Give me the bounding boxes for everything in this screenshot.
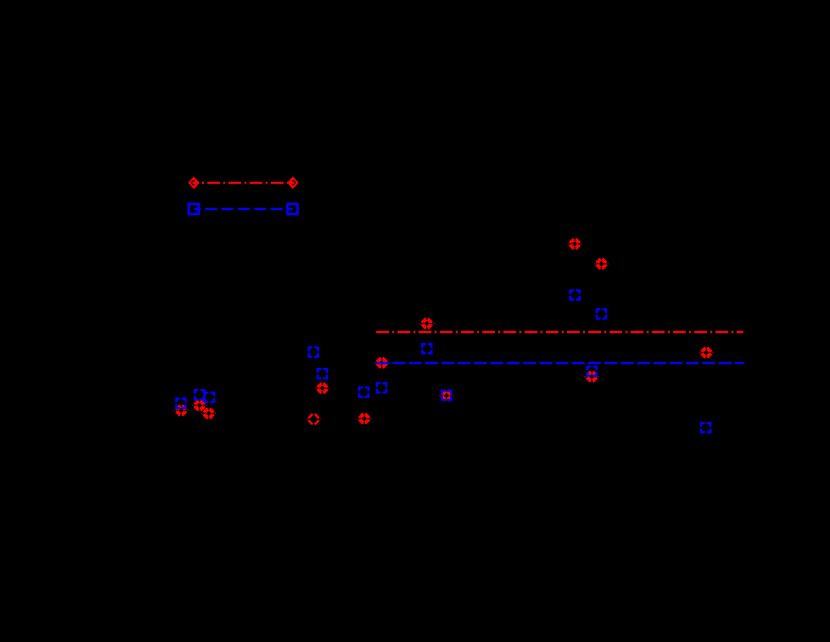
blue square point 12 [176, 399, 185, 408]
blue square point 4 [309, 347, 318, 356]
red mean dash-dot line [376, 331, 743, 333]
red diamond point 11 [306, 413, 321, 426]
blue square point 3 [422, 344, 431, 353]
legend blue square marker left [189, 204, 199, 214]
blue square point 8 [377, 383, 386, 392]
red diamond point 7 [315, 382, 330, 395]
red diamond point 12 [357, 412, 372, 425]
red diamond point 5 [699, 346, 714, 359]
blue square point 13 [701, 423, 710, 432]
red diamond point 3 [419, 317, 434, 330]
red diamond point 4 [374, 357, 389, 370]
legend red dash-dot sample line [194, 182, 293, 184]
legend red diamond marker right [287, 177, 298, 190]
blue square point 6 [587, 367, 596, 376]
red diamond point 13 [174, 404, 189, 417]
blue square point 10 [195, 390, 204, 399]
red diamond point 8 [439, 389, 454, 402]
blue square point 5 [318, 369, 327, 378]
blue square point 9 [442, 391, 451, 400]
legend blue dashed sample line [194, 208, 293, 210]
red diamond point 9 [192, 399, 207, 412]
blue square point 7 [359, 388, 368, 397]
blue mean dashed line [376, 362, 744, 364]
red diamond point 2 [594, 258, 609, 271]
blue square point 1 [570, 290, 579, 299]
red diamond point 1 [567, 238, 582, 251]
blue square point 11 [205, 393, 214, 402]
red diamond point 6 [584, 370, 599, 383]
legend blue square marker right [287, 204, 297, 214]
legend red diamond marker left [188, 177, 199, 190]
blue square point 2 [597, 309, 606, 318]
red diamond point 10 [201, 407, 216, 420]
